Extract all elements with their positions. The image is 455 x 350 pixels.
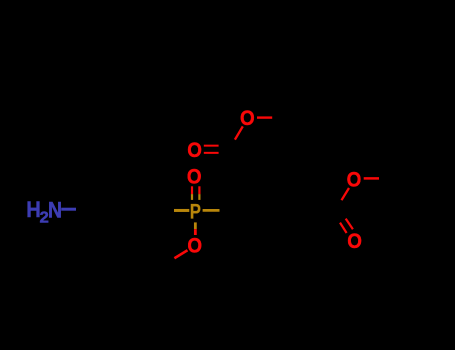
wire P-O single bond (red lower half) <box>194 229 197 235</box>
svg-text:O: O <box>187 139 202 162</box>
wire P=O double bond (red upper halves) <box>191 186 193 194</box>
svg-text:O: O <box>187 166 202 189</box>
wire O-CH2 half-bond ester 1 (red, horizontal) <box>257 116 272 118</box>
wire P-C half-bond right of P (orange) <box>203 209 220 212</box>
wire N-C half-bond (blue) <box>61 208 76 211</box>
wire C-O half-bond ester 2 (red, diagonal) <box>342 188 350 200</box>
wire C-P half-bond left of P (orange) <box>174 209 189 212</box>
svg-text:N: N <box>48 198 62 222</box>
svg-text:P: P <box>190 200 201 225</box>
wire C=O double bond ester 2 (red halves, diagonal) <box>340 223 347 233</box>
amine label H2N <box>26 197 62 226</box>
wire O-CH3 half-bond (red, down-left) <box>174 250 187 258</box>
wire P=O double bond (orange lower halves) <box>191 194 193 200</box>
wire O-CH2 half-bond ester 2 (red, horizontal) <box>364 177 379 180</box>
wire C-O half-bond ester 1 (red, diagonal) <box>235 126 243 139</box>
wire P-O single bond (orange upper half) <box>194 222 197 229</box>
svg-text:O: O <box>187 234 202 257</box>
svg-text:O: O <box>347 230 362 253</box>
wire C=O double bond ester 1 (red halves) <box>204 145 219 147</box>
